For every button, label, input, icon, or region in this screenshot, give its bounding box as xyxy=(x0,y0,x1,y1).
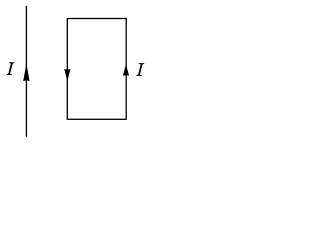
arrowhead current down on left side of loop xyxy=(64,69,70,82)
arrowhead current I up on right side of loop xyxy=(123,64,129,76)
arrowhead current I up on straight wire xyxy=(23,63,29,81)
wire long straight wire xyxy=(25,6,27,137)
label I (loop current) xyxy=(136,63,144,76)
wire rectangular loop xyxy=(67,19,126,120)
label I (straight wire current) xyxy=(6,62,14,75)
